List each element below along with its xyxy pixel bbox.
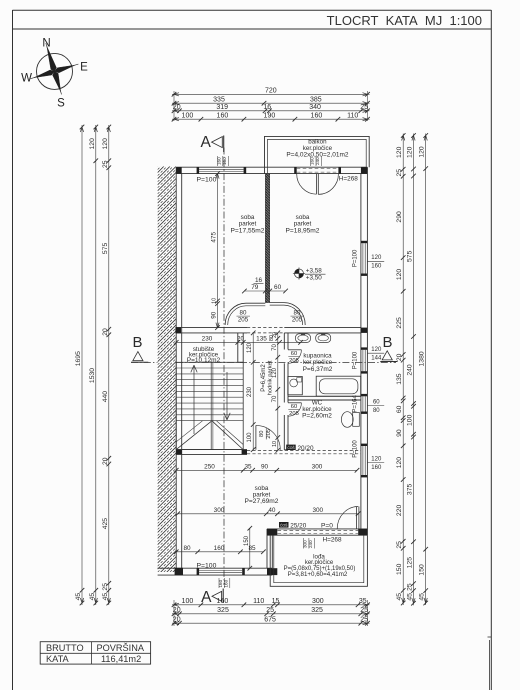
toilet <box>341 412 359 428</box>
svg-text:120: 120 <box>371 347 382 353</box>
svg-text:300: 300 <box>312 463 323 470</box>
svg-text:80: 80 <box>183 545 191 552</box>
svg-text:H=268: H=268 <box>322 537 341 544</box>
svg-text:375: 375 <box>407 484 414 496</box>
table brutto povrsina <box>40 642 150 665</box>
dimension right col1 <box>396 133 405 605</box>
svg-text:TLOCRT KATA MJ 1:100: TLOCRT KATA MJ 1:100 <box>327 13 482 28</box>
svg-text:1695: 1695 <box>75 351 82 366</box>
svg-text:45: 45 <box>396 593 403 601</box>
svg-text:ĆOŠ: ĆOŠ <box>287 445 295 450</box>
svg-text:120: 120 <box>371 255 382 261</box>
window right 1 (soba 18,95) parapet label <box>353 249 359 267</box>
svg-text:160: 160 <box>218 579 223 587</box>
svg-text:220: 220 <box>396 505 403 517</box>
svg-text:120: 120 <box>272 367 278 378</box>
svg-text:205: 205 <box>289 358 299 364</box>
svg-text:P=3,81+0,60=4,41m2: P=3,81+0,60=4,41m2 <box>288 571 348 578</box>
svg-text:300: 300 <box>214 507 225 514</box>
section marker A bottom <box>201 589 223 607</box>
bathtub <box>316 376 361 396</box>
svg-text:80: 80 <box>294 310 301 317</box>
door balcony height label H=268 <box>339 175 358 182</box>
svg-text:120: 120 <box>396 269 403 281</box>
section marker A top <box>201 134 224 152</box>
svg-text:205: 205 <box>266 429 272 439</box>
svg-text:205: 205 <box>292 317 303 324</box>
label P=0 <box>321 522 333 529</box>
svg-text:P=18,95m2: P=18,95m2 <box>286 228 320 235</box>
svg-text:135: 135 <box>396 373 403 385</box>
sheet border right <box>488 10 492 690</box>
svg-text:120: 120 <box>371 456 382 462</box>
svg-text:475: 475 <box>211 232 218 243</box>
svg-text:80: 80 <box>373 408 380 414</box>
section line A-A <box>223 148 225 586</box>
svg-text:20: 20 <box>173 607 181 614</box>
door wc 60/205 <box>288 403 301 416</box>
cos 20/20 block <box>286 445 314 452</box>
compass label W <box>21 73 32 85</box>
window right 2 (kupaonica) <box>361 347 368 373</box>
svg-text:25: 25 <box>396 541 403 549</box>
svg-text:P=164: P=164 <box>353 394 359 412</box>
compass label N <box>42 38 50 50</box>
dimension bottom row1 <box>172 598 370 626</box>
svg-text:40: 40 <box>268 507 276 514</box>
stubiste label <box>187 346 221 364</box>
svg-text:230: 230 <box>202 335 213 342</box>
title text TLOCRT KATA MJ 1:100 <box>327 13 482 28</box>
svg-text:340: 340 <box>309 104 321 111</box>
svg-text:25/20: 25/20 <box>290 523 306 530</box>
dimension stubiste row 230/20/135/80 <box>174 335 303 345</box>
window top size rotated 160/160 <box>217 156 229 166</box>
svg-text:575: 575 <box>407 250 414 262</box>
svg-text:150: 150 <box>419 564 426 576</box>
svg-text:90: 90 <box>396 429 403 437</box>
dimension interior 475/10/90 <box>211 171 220 330</box>
window right 4 (soba 27,69) parapet label <box>353 440 359 458</box>
svg-text:150: 150 <box>244 535 250 546</box>
door balcony opening (dashed) <box>294 167 341 173</box>
svg-text:P=0: P=0 <box>321 522 333 529</box>
door balcony swing arcs <box>297 174 339 195</box>
window right 1 (soba 18,95) <box>361 241 368 276</box>
svg-text:25: 25 <box>396 169 403 177</box>
wall bottom right / loggia top <box>267 529 367 535</box>
dimension bottom row2 <box>172 607 370 616</box>
compass label E <box>80 62 88 74</box>
svg-text:575: 575 <box>102 243 109 255</box>
door loggia swing arc <box>337 507 358 529</box>
window right 4 (soba 27,69) <box>361 444 368 478</box>
svg-text:H=268: H=268 <box>339 175 358 182</box>
dimension hodnik vertical 120/230/100 <box>247 331 255 452</box>
svg-text:100: 100 <box>247 432 253 443</box>
svg-text:160: 160 <box>371 465 382 471</box>
svg-text:45: 45 <box>89 593 96 601</box>
door loggia height label H=268 <box>322 537 341 544</box>
svg-text:35: 35 <box>359 598 367 605</box>
svg-text:120: 120 <box>102 138 109 150</box>
window top (160/160) <box>197 167 247 173</box>
svg-text:P=27,69m2: P=27,69m2 <box>245 498 279 505</box>
soba2 label <box>286 214 320 235</box>
dimension top row3 <box>172 104 370 113</box>
door wc label <box>288 404 299 417</box>
svg-text:+3,58: +3,58 <box>306 268 322 275</box>
svg-text:25: 25 <box>360 607 368 614</box>
balcony outline <box>265 136 370 173</box>
svg-text:10: 10 <box>272 441 278 447</box>
svg-text:1530: 1530 <box>89 368 96 383</box>
svg-text:20: 20 <box>102 328 109 336</box>
wall top exterior <box>176 167 367 173</box>
svg-text:P=100: P=100 <box>197 563 217 570</box>
svg-text:parket: parket <box>239 221 257 228</box>
soba3 label <box>245 485 279 505</box>
svg-text:10: 10 <box>212 298 218 304</box>
window bottom size rotated 160/160 <box>218 578 230 588</box>
arch door label left 80/205 <box>237 310 251 324</box>
wall stubiste/hodnik stub <box>238 333 243 362</box>
svg-text:120: 120 <box>247 342 253 353</box>
svg-text:45: 45 <box>102 593 109 601</box>
wall hodnik/kupaonica vertical <box>284 333 288 450</box>
soba1 label <box>231 214 265 235</box>
dimension left col3 <box>102 125 111 606</box>
svg-text:A: A <box>201 134 212 151</box>
staircase <box>176 362 243 449</box>
wall right exterior <box>361 167 368 535</box>
dimension loggia 150 vertical <box>244 526 252 571</box>
svg-text:160: 160 <box>311 112 323 119</box>
section marker B left <box>131 334 148 362</box>
svg-text:25: 25 <box>360 616 368 623</box>
beam over soba (dashed) <box>247 450 361 453</box>
svg-text:W: W <box>21 73 32 85</box>
svg-text:385: 385 <box>310 96 322 103</box>
loggia railing <box>270 535 367 586</box>
svg-text:B: B <box>382 334 392 351</box>
svg-text:205: 205 <box>238 317 249 324</box>
svg-text:240: 240 <box>407 364 414 376</box>
window bottom (160/160) <box>197 568 245 575</box>
svg-text:1380: 1380 <box>419 351 426 366</box>
svg-text:250: 250 <box>204 463 215 470</box>
door balcony size rotated <box>310 156 322 166</box>
svg-text:720: 720 <box>265 88 277 95</box>
pier bottom-left <box>175 568 183 575</box>
window right 2 (kupaonica) size label <box>367 347 384 362</box>
svg-text:60: 60 <box>396 405 403 413</box>
door balcony leaves <box>316 174 318 195</box>
window right 2 (kupaonica) parapet label <box>353 351 359 369</box>
svg-text:25: 25 <box>360 104 368 111</box>
svg-text:100: 100 <box>407 414 414 426</box>
svg-text:60: 60 <box>373 399 380 405</box>
svg-text:45: 45 <box>407 593 414 601</box>
svg-text:20: 20 <box>272 332 278 338</box>
window top parapet label P=100 <box>197 176 217 183</box>
level mark +3,58/+3,50 <box>293 267 326 281</box>
door hodnik-soba label <box>259 428 272 440</box>
svg-text:20: 20 <box>237 336 244 342</box>
dimension soba3 row 300/40/300 <box>175 507 360 516</box>
wall mid horizontal <box>176 328 361 333</box>
svg-text:300: 300 <box>312 598 324 605</box>
window right 3 (wc) size label <box>367 399 384 414</box>
loggia label <box>284 553 356 578</box>
washbasin 2 <box>316 333 331 343</box>
svg-text:16: 16 <box>255 277 263 284</box>
svg-text:S: S <box>57 98 65 110</box>
window right 1 (soba 18,95) size label <box>367 255 384 270</box>
dimension bottom row 80/160/85 <box>174 545 266 554</box>
svg-text:P=6,37m2: P=6,37m2 <box>303 366 333 373</box>
section marker B right <box>380 334 397 361</box>
svg-text:45: 45 <box>419 593 426 601</box>
svg-text:P=100: P=100 <box>197 176 217 183</box>
svg-text:P=100: P=100 <box>353 351 359 369</box>
dimension right col3 <box>419 133 428 605</box>
wall between rooms (16cm, solid) <box>265 174 269 303</box>
svg-text:16: 16 <box>263 104 271 111</box>
stair arrow up <box>191 365 197 434</box>
svg-text:116,41m2: 116,41m2 <box>101 654 141 664</box>
svg-text:70: 70 <box>272 344 278 351</box>
svg-text:20: 20 <box>396 353 403 361</box>
svg-text:70: 70 <box>272 395 278 402</box>
party wall hatch <box>158 148 177 591</box>
svg-text:160: 160 <box>214 545 225 552</box>
svg-text:230: 230 <box>247 386 253 397</box>
svg-text:P=10,12m2: P=10,12m2 <box>187 357 221 364</box>
svg-text:20/20: 20/20 <box>298 445 314 452</box>
dimension soba3 row 250/35/90/300 <box>174 463 359 472</box>
pier stair-left <box>176 450 182 455</box>
svg-text:79: 79 <box>251 284 259 291</box>
svg-text:80: 80 <box>259 431 265 437</box>
dimension top row2 <box>172 96 370 105</box>
svg-text:335: 335 <box>213 96 225 103</box>
svg-text:60: 60 <box>291 404 297 410</box>
svg-text:300: 300 <box>303 540 308 548</box>
svg-text:120: 120 <box>407 146 414 158</box>
cos 25/20 block <box>279 522 307 530</box>
svg-text:205: 205 <box>289 411 299 417</box>
svg-text:225: 225 <box>396 317 403 329</box>
svg-text:90: 90 <box>211 311 218 319</box>
svg-text:25: 25 <box>407 583 414 591</box>
window right 3 (wc) <box>361 394 368 414</box>
svg-text:100: 100 <box>182 598 194 605</box>
dimension arch 16 <box>254 277 264 284</box>
svg-text:E: E <box>80 62 88 74</box>
wall loggia west connector <box>267 529 272 568</box>
pier stair-right <box>242 450 247 455</box>
sheet border left <box>12 10 14 690</box>
svg-text:80: 80 <box>240 310 247 317</box>
hodnik label rotated <box>261 360 273 395</box>
pier top-right corner <box>361 167 368 173</box>
dimension left col2 <box>89 125 98 606</box>
svg-text:P=2,60m2: P=2,60m2 <box>302 413 332 420</box>
dimension top row1 <box>172 88 370 122</box>
svg-text:125: 125 <box>407 557 414 569</box>
wall stair bottom <box>176 450 247 455</box>
svg-text:P=100: P=100 <box>353 440 359 458</box>
arch door label right 80/205 <box>291 310 305 324</box>
washing machine <box>288 377 303 395</box>
svg-text:144: 144 <box>371 356 382 362</box>
svg-text:190: 190 <box>264 112 276 119</box>
door hodnik-soba 80/205 <box>256 425 280 449</box>
svg-text:160: 160 <box>371 264 382 270</box>
svg-text:20: 20 <box>173 616 181 623</box>
compass label S <box>57 98 65 110</box>
compass circle <box>37 53 73 89</box>
svg-text:N: N <box>42 38 50 50</box>
svg-text:P=6,45m2: P=6,45m2 <box>261 364 267 392</box>
pier loggia-right <box>358 529 367 535</box>
pier mid-right <box>361 328 368 333</box>
svg-text:160: 160 <box>217 598 229 605</box>
svg-text:25: 25 <box>102 583 109 591</box>
door kupaonica label <box>288 351 299 364</box>
svg-text:25: 25 <box>266 607 274 614</box>
svg-text:110: 110 <box>347 112 358 119</box>
svg-text:120: 120 <box>396 146 403 158</box>
wall left exterior <box>176 167 182 568</box>
sheet border top <box>13 9 492 11</box>
pier loggia-left <box>267 529 277 535</box>
svg-text:60: 60 <box>291 351 297 357</box>
door loggia leaf <box>357 507 359 529</box>
svg-text:135: 135 <box>256 335 267 342</box>
svg-text:35: 35 <box>244 463 252 470</box>
svg-text:P=17,55m2: P=17,55m2 <box>231 228 265 235</box>
washbasin 1 <box>296 333 311 343</box>
window right 4 (soba 27,69) size label <box>367 456 384 471</box>
svg-text:90: 90 <box>261 463 269 470</box>
svg-text:100: 100 <box>182 112 194 119</box>
kupaonica label <box>303 353 333 373</box>
svg-text:15: 15 <box>272 598 280 605</box>
door kupaonica 60/205 <box>288 350 301 364</box>
window right 3 (wc) parapet label <box>353 394 359 412</box>
dimension bottom row3 <box>172 616 370 625</box>
dimension arch 79/60 <box>242 284 288 293</box>
svg-text:425: 425 <box>102 518 109 530</box>
dimension top row4 <box>172 112 370 121</box>
svg-text:60: 60 <box>274 284 282 291</box>
svg-text:290: 290 <box>396 211 403 223</box>
svg-text:160: 160 <box>310 157 315 165</box>
svg-text:300: 300 <box>312 507 323 514</box>
compass star <box>22 36 86 102</box>
dimension left col1 <box>75 125 84 606</box>
wall bottom left exterior <box>158 568 273 575</box>
svg-text:319: 319 <box>216 104 228 111</box>
svg-text:675: 675 <box>264 616 276 623</box>
svg-text:110: 110 <box>253 598 264 605</box>
svg-text:BRUTTO: BRUTTO <box>46 643 84 653</box>
svg-text:20: 20 <box>102 457 109 465</box>
svg-text:+3,50: +3,50 <box>306 275 322 282</box>
title band line <box>13 28 492 30</box>
stair arrow down <box>224 372 230 420</box>
svg-text:POVRŠINA: POVRŠINA <box>97 643 145 653</box>
window bottom parapet label P=100 <box>197 563 217 570</box>
svg-text:120: 120 <box>419 146 426 158</box>
dimension right col2 <box>407 133 416 605</box>
svg-text:45: 45 <box>75 593 82 601</box>
svg-text:440: 440 <box>102 391 109 403</box>
dimension hodnik east vertical <box>272 331 280 453</box>
svg-text:120: 120 <box>396 457 403 469</box>
pier mid-left <box>175 327 181 333</box>
door loggia size rotated 300/240 <box>303 538 315 549</box>
svg-text:120: 120 <box>89 138 96 150</box>
pier top-left corner <box>176 167 182 173</box>
balcony label <box>286 138 349 158</box>
svg-text:25: 25 <box>102 160 109 168</box>
svg-text:P=100: P=100 <box>353 249 359 267</box>
wc label <box>302 400 332 420</box>
svg-text:B: B <box>132 334 142 351</box>
loggia opening (dashed) <box>278 531 359 534</box>
pier bottom-mid <box>267 568 277 575</box>
section line B-B <box>131 361 396 363</box>
svg-text:ĆOŠ: ĆOŠ <box>280 522 288 527</box>
svg-text:150: 150 <box>396 563 403 575</box>
wall kupaonica/wc divider <box>288 396 361 400</box>
svg-text:325: 325 <box>217 607 229 614</box>
svg-text:KATA: KATA <box>46 654 70 664</box>
svg-text:20: 20 <box>173 104 181 111</box>
svg-text:160: 160 <box>217 112 229 119</box>
svg-text:325: 325 <box>311 607 323 614</box>
svg-text:parket: parket <box>294 221 312 228</box>
arch partition <box>225 303 305 325</box>
